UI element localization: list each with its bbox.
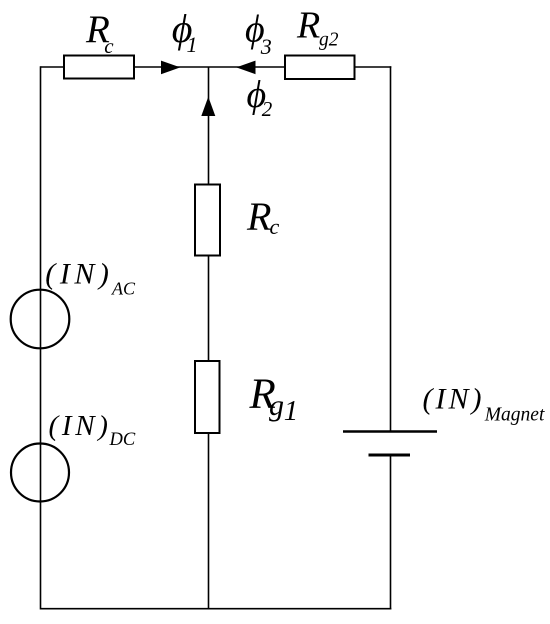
svg-text:g2: g2: [319, 30, 339, 51]
svg-text:c: c: [270, 214, 280, 239]
svg-text:g: g: [269, 389, 284, 422]
svg-text:2: 2: [262, 97, 273, 121]
svg-text:1: 1: [284, 395, 299, 427]
svg-text:R: R: [246, 194, 271, 239]
svg-text:Magnet: Magnet: [484, 404, 545, 425]
svg-text:AC: AC: [111, 279, 136, 299]
svg-text:(IN): (IN): [423, 383, 485, 416]
svg-text:DC: DC: [109, 430, 136, 450]
svg-text:(IN): (IN): [49, 410, 112, 442]
svg-text:R: R: [296, 4, 320, 46]
svg-text:(IN): (IN): [45, 257, 113, 290]
svg-text:3: 3: [260, 34, 272, 59]
svg-text:c: c: [104, 34, 114, 58]
svg-text:1: 1: [187, 32, 198, 57]
